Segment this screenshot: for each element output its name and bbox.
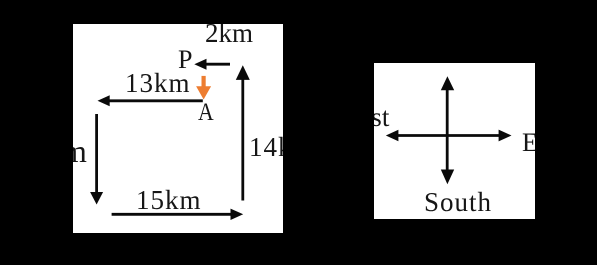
wire: 13km leg arrow (points left): [98, 95, 203, 106]
label: West direction (clipped, st visible): [336, 104, 389, 131]
wire: compass horizontal double arrow (West-East axis): [386, 130, 512, 142]
panel: right compass white background: [374, 63, 535, 219]
label: 15km distance: [136, 187, 202, 214]
label: South direction: [424, 189, 492, 216]
wire: left vertical leg arrow (points down): [90, 114, 103, 205]
wire: right vertical 14km leg arrow (points up): [236, 65, 250, 200]
label: East direction (clipped, E visible): [522, 130, 567, 156]
node P: [178, 47, 192, 73]
arrow: orange pointer to node A: [196, 76, 211, 100]
panel: left route diagram white background: [73, 24, 283, 233]
label: 14km distance (clipped at panel edge): [249, 134, 315, 161]
label: 2km distance: [205, 20, 253, 47]
wire: 2km leg arrow (points left toward P): [194, 59, 230, 70]
wire: 15km bottom leg arrow (points right): [112, 209, 244, 220]
label: 13km distance: [125, 70, 191, 97]
wire: compass vertical double arrow (North-South axis): [441, 76, 454, 184]
node A: [198, 100, 214, 125]
label: left leg distance (clipped, only m visible): [30, 135, 87, 167]
